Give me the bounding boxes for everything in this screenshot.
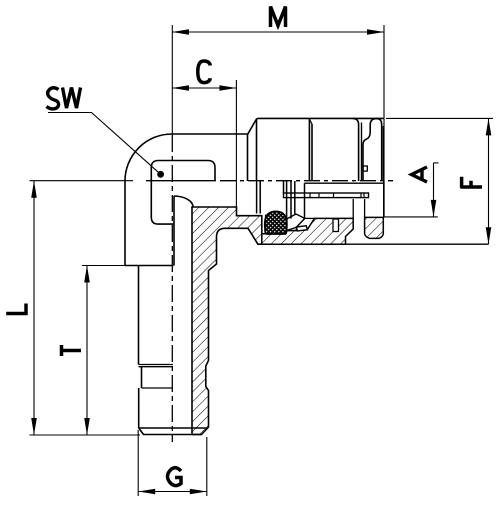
- cartridge bottom wall section hatch: [262, 218, 353, 244]
- release ring latch notch: [363, 166, 367, 171]
- thread relief groove left edge: [141, 367, 143, 388]
- hex flat (SW) rounded rect: [151, 161, 215, 225]
- bore entry fillet: [174, 196, 193, 207]
- O-ring groove floor: [262, 233, 286, 235]
- release ring: [363, 119, 382, 181]
- elbow body outline: corner arc: [125, 134, 172, 181]
- dimension G: [30, 430, 207, 496]
- dimension L: [31, 181, 37, 435]
- stem bottom edge with chamfers: [139, 428, 202, 435]
- label G: [168, 468, 182, 486]
- cartridge nose verticals below axis: [256, 181, 258, 214]
- dimension C: [172, 80, 236, 212]
- dimension T: [82, 266, 139, 436]
- collet claw white pieces: [287, 214, 305, 231]
- body top edge: [172, 133, 248, 135]
- release ring right edge below axis: [383, 181, 385, 217]
- thread end double line: [139, 364, 174, 366]
- collet/ring separation slot walls: [352, 199, 354, 218]
- label C: [198, 61, 211, 83]
- port face vertical: [247, 135, 249, 182]
- inner vertical line at bore left: [173, 196, 175, 266]
- release ring bottom section hatch: [365, 217, 384, 238]
- vertical centerline of stem axis: [171, 25, 173, 135]
- cartridge sleeve flange cone: [248, 118, 259, 134]
- label M: [271, 7, 286, 28]
- label T: [60, 345, 81, 356]
- inner sleeve lines below axis: [305, 182, 384, 184]
- sleeve B right edge with corner: [353, 118, 359, 181]
- body left edge: [124, 181, 126, 266]
- tube support bar: [283, 181, 285, 193]
- sleeve A / sleeve B joint: [308, 118, 310, 181]
- stem bottom chamfer line: [139, 427, 207, 429]
- collet stop verticals: [286, 181, 288, 219]
- threaded portion left edge: [138, 388, 140, 428]
- stem shank left edge: [138, 266, 140, 365]
- O-ring seal: [265, 211, 287, 234]
- body bottom edge (view half): [125, 265, 174, 267]
- horizontal centerline of port axis: [30, 180, 134, 182]
- dimension F: [386, 118, 493, 244]
- cartridge top edge: [258, 117, 384, 119]
- bottom outline of port assembly: [258, 243, 489, 245]
- white slot in cartridge wall: [333, 219, 339, 232]
- label F: [460, 177, 482, 188]
- sleeve cylinder edge: [256, 120, 258, 182]
- dimension M: [172, 25, 384, 217]
- label SW with leader: [47, 88, 81, 109]
- dimension A: [383, 163, 438, 217]
- label A: [412, 167, 428, 182]
- body section hatch (stem right wall + flange + port pocket): [192, 207, 262, 435]
- label L: [6, 304, 26, 314]
